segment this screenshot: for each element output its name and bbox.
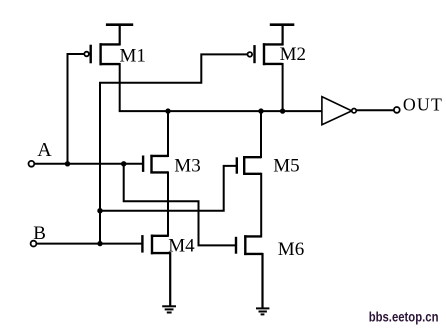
- transistor M1 (PMOS): [91, 43, 120, 65]
- output terminal OUT: [394, 107, 400, 113]
- wire output node (to inverter): [119, 110, 322, 112]
- svg-text:OUT: OUT: [403, 94, 443, 114]
- svg-text:B: B: [33, 223, 46, 244]
- transistor M6 (NMOS): [236, 235, 263, 255]
- svg-text:A: A: [37, 139, 52, 161]
- inverter output bubble: [352, 109, 356, 113]
- junction dot B branch to M5 gate: [97, 208, 102, 213]
- transistor M4 (NMOS): [142, 235, 170, 255]
- VDD rail symbol above M2: [270, 23, 295, 26]
- svg-text:bbs.eetop.cn: bbs.eetop.cn: [369, 309, 439, 325]
- transistor M5 (NMOS): [237, 156, 261, 175]
- junction dot A to M6 gate branch: [121, 161, 126, 166]
- svg-text:M1: M1: [120, 46, 146, 67]
- wire output node to M5 drain: [260, 111, 262, 158]
- wire input B to M4 gate: [37, 243, 143, 245]
- wire M6 source to ground: [261, 253, 263, 309]
- transistor M2 (PMOS): [255, 43, 283, 65]
- gate bubble of M2: [248, 52, 253, 57]
- svg-text:M5: M5: [273, 155, 299, 176]
- wire B branch to M5 gate: [100, 166, 237, 211]
- wire M3 source to M4 drain: [167, 171, 169, 236]
- wire M1 drain down: [119, 63, 121, 111]
- junction dot B to M2/M5 gate branch: [97, 241, 102, 246]
- transistor M3 (NMOS): [143, 155, 168, 174]
- svg-text:M3: M3: [174, 155, 200, 176]
- wire M5 source to M6 drain: [260, 173, 262, 238]
- wire VDD2 to M2 source: [282, 25, 284, 46]
- gate bubble of M1: [84, 52, 89, 57]
- ground symbol below M4: [162, 306, 176, 312]
- wire output node to M3 drain: [167, 111, 169, 157]
- VDD rail symbol above M1: [106, 23, 133, 26]
- inverter U1: [322, 97, 352, 125]
- wire inverter output to OUT: [356, 109, 394, 111]
- svg-text:M2: M2: [280, 44, 306, 65]
- junction dot M5 drain on output node: [258, 108, 263, 113]
- junction dot M2 drain on output node: [280, 108, 285, 113]
- wire M2 drain down: [282, 63, 284, 111]
- wire M2 gate to node B vertical: [100, 54, 247, 243]
- wire M4 source to ground: [169, 252, 171, 306]
- svg-text:M4: M4: [168, 235, 195, 256]
- ground symbol below M6: [256, 308, 269, 314]
- wire input A to M3 gate: [35, 163, 144, 165]
- junction dot A to M1 gate: [65, 161, 70, 166]
- wire A branch to M6 gate: [124, 164, 236, 246]
- wire M1 gate to node A: [68, 54, 85, 164]
- input terminal B: [31, 241, 37, 247]
- junction dot M3 drain on output node: [165, 108, 170, 113]
- wire VDD1 to M1 source: [119, 25, 121, 46]
- input terminal A: [29, 161, 35, 167]
- svg-text:M6: M6: [278, 239, 304, 260]
